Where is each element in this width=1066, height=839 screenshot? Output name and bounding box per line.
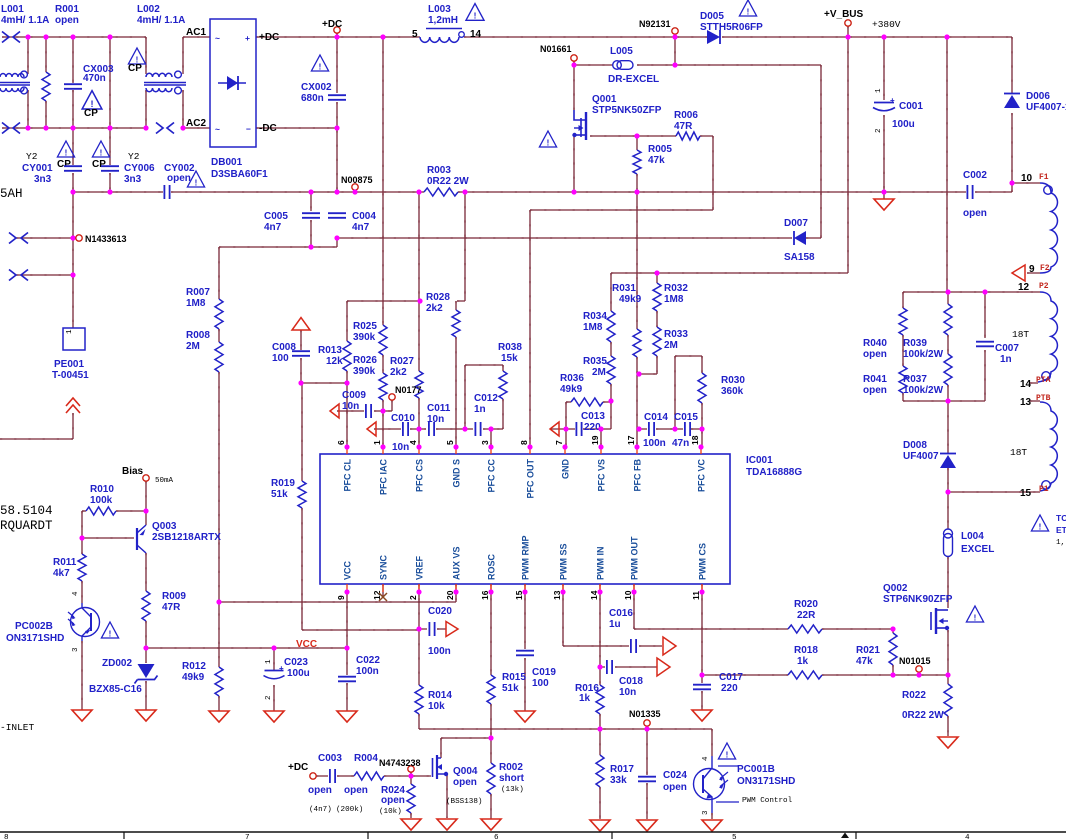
svg-text:Q001: Q001 xyxy=(592,94,617,105)
node +DC bottom xyxy=(310,773,316,779)
svg-text:3: 3 xyxy=(480,440,490,445)
warning triangle at CY002 xyxy=(187,171,204,187)
svg-text:R012: R012 xyxy=(182,661,206,672)
capacitor CX002 680n xyxy=(328,95,346,100)
ground at C023 xyxy=(264,711,284,722)
svg-text:D007: D007 xyxy=(784,218,808,229)
svg-text:PTA: PTA xyxy=(1036,376,1051,385)
off-page arrow above C008 xyxy=(292,318,310,331)
svg-text:51k: 51k xyxy=(502,683,519,694)
transformer winding F1-F2 (primary aux) xyxy=(1040,183,1058,273)
svg-text:R003: R003 xyxy=(427,165,451,176)
svg-text:12: 12 xyxy=(1018,282,1030,293)
svg-text:R010: R010 xyxy=(90,484,114,495)
svg-text:STP5NK50ZFP: STP5NK50ZFP xyxy=(592,105,662,116)
off-page arrows, mains input row L (top left) xyxy=(2,32,9,43)
svg-text:100n: 100n xyxy=(356,666,379,677)
svg-text:open: open xyxy=(963,208,987,219)
IC001 top pin 1 PFC IAC xyxy=(382,447,384,454)
svg-text:1: 1 xyxy=(875,88,883,93)
svg-text:!: ! xyxy=(474,11,477,21)
resistor R033 2M xyxy=(653,327,661,356)
capacitor C023 100u xyxy=(265,670,284,672)
svg-text:PFC OUT: PFC OUT xyxy=(526,458,536,498)
svg-text:+380V: +380V xyxy=(872,19,901,30)
svg-text:R014: R014 xyxy=(428,690,452,701)
svg-text:100u: 100u xyxy=(892,119,915,130)
svg-text:!: ! xyxy=(974,613,977,622)
warning triangle at D005 xyxy=(739,0,756,16)
capacitor C020 100n xyxy=(429,622,434,636)
node +V_BUS xyxy=(845,20,851,26)
capacitor C015 47n xyxy=(685,422,690,436)
svg-text:R021: R021 xyxy=(856,645,880,656)
off-page arrows, earth row 2 xyxy=(9,270,16,281)
capacitor C010 10n xyxy=(403,422,408,436)
svg-text:(200k): (200k) xyxy=(336,806,363,814)
svg-text:TDA16888G: TDA16888G xyxy=(746,467,802,478)
svg-text:100u: 100u xyxy=(287,668,310,679)
svg-text:3: 3 xyxy=(72,647,80,652)
off-page arrows at L002/AC2 break xyxy=(156,123,163,134)
svg-text:2k2: 2k2 xyxy=(426,303,443,314)
node N0177 xyxy=(389,394,395,400)
svg-text:R018: R018 xyxy=(794,645,818,656)
resistor R017 33k xyxy=(596,755,604,787)
svg-text:ON3171SHD: ON3171SHD xyxy=(6,633,64,644)
svg-text:47R: 47R xyxy=(162,602,181,613)
svg-text:22R: 22R xyxy=(797,610,816,621)
svg-text:open: open xyxy=(344,785,368,796)
svg-text:100n: 100n xyxy=(643,438,666,449)
node N00875 xyxy=(352,184,358,190)
svg-text:R030: R030 xyxy=(721,375,745,386)
resistor R013 12k xyxy=(343,341,351,371)
svg-text:PC001B: PC001B xyxy=(737,764,775,775)
svg-text:C010: C010 xyxy=(391,413,415,424)
svg-text:5: 5 xyxy=(732,834,737,839)
svg-text:C019: C019 xyxy=(532,667,556,678)
capacitor C005 4n7 xyxy=(302,213,320,218)
capacitor C024 (open) xyxy=(638,777,656,782)
common-mode choke L002 xyxy=(146,73,172,77)
svg-text:R027: R027 xyxy=(390,356,414,367)
resistor R041 (open) xyxy=(899,366,907,393)
svg-text:EXCEL: EXCEL xyxy=(961,544,994,555)
chassis chevron at PE001 xyxy=(66,398,80,413)
IC001 top pin 6 PFC CL xyxy=(346,447,348,454)
svg-text:DR-EXCEL: DR-EXCEL xyxy=(608,74,659,85)
optocoupler PC001B ON3171SHD (transistor side) xyxy=(694,769,725,800)
svg-text:L003: L003 xyxy=(428,4,451,15)
capacitor C014 100n xyxy=(649,422,654,436)
svg-text:PFC VS: PFC VS xyxy=(597,459,607,492)
svg-text:P2: P2 xyxy=(1039,282,1049,291)
svg-text:PFC FB: PFC FB xyxy=(633,459,643,492)
svg-text:58.5104: 58.5104 xyxy=(0,504,53,518)
svg-text:360k: 360k xyxy=(721,386,744,397)
svg-text:R019: R019 xyxy=(271,478,295,489)
resistor R019 51k xyxy=(298,481,306,508)
svg-text:TC: TC xyxy=(1056,513,1066,523)
svg-text:Bias: Bias xyxy=(122,466,144,477)
svg-text:14: 14 xyxy=(470,29,482,40)
svg-text:short: short xyxy=(499,773,525,784)
svg-text:5: 5 xyxy=(445,440,455,445)
svg-text:10: 10 xyxy=(1021,173,1033,184)
capacitor C003 (open) xyxy=(330,769,335,783)
svg-text:C008: C008 xyxy=(272,342,296,353)
svg-text:N4743238: N4743238 xyxy=(379,758,421,768)
svg-text:L002: L002 xyxy=(137,4,160,15)
svg-text:R033: R033 xyxy=(664,329,688,340)
svg-text:L001: L001 xyxy=(1,4,24,15)
svg-text:R034: R034 xyxy=(583,311,607,322)
svg-text:N00875: N00875 xyxy=(341,175,373,185)
IC001 bottom pin 12 SYNC xyxy=(382,584,384,592)
svg-text:R026: R026 xyxy=(353,355,377,366)
svg-text:R038: R038 xyxy=(498,342,522,353)
svg-text:C005: C005 xyxy=(264,211,288,222)
ground at Q004 source xyxy=(437,819,457,830)
svg-text:R031: R031 xyxy=(612,283,636,294)
svg-text:220: 220 xyxy=(721,683,738,694)
svg-text:49k9: 49k9 xyxy=(560,384,583,395)
capacitor C009 10n xyxy=(366,404,371,418)
svg-text:C016: C016 xyxy=(609,608,633,619)
svg-text:C003: C003 xyxy=(318,753,342,764)
IC001 top pin 7 GND xyxy=(564,447,566,454)
node N1433613 xyxy=(70,235,75,240)
svg-text:0R22 2W: 0R22 2W xyxy=(902,710,944,721)
off-page arrow at C018 xyxy=(657,658,670,676)
svg-text:C004: C004 xyxy=(352,211,376,222)
svg-text:4: 4 xyxy=(72,591,80,596)
svg-text:!: ! xyxy=(1039,522,1042,531)
svg-text:C022: C022 xyxy=(356,655,380,666)
inductor L005 DR-EXCEL xyxy=(613,61,622,70)
svg-text:Y2: Y2 xyxy=(26,151,38,162)
ground at C022 xyxy=(337,711,357,722)
svg-text:F2: F2 xyxy=(1040,264,1050,273)
svg-text:CP: CP xyxy=(128,63,142,74)
svg-text:PWM RMP: PWM RMP xyxy=(521,536,531,581)
warning triangle at L003 xyxy=(466,4,484,21)
junction at earth row 2 xyxy=(70,272,75,277)
off-page arrows, mains input row N xyxy=(2,123,9,134)
ground at R012 xyxy=(209,711,229,722)
node N01661 xyxy=(571,55,577,61)
IC001 top pin 17 PFC FB xyxy=(636,447,638,454)
ground at R002 xyxy=(481,819,501,830)
svg-text:49k9: 49k9 xyxy=(619,294,642,305)
transistor Q003 2SB1218ARTX (PNP) xyxy=(136,528,138,550)
svg-text:AC2: AC2 xyxy=(186,118,206,129)
resistor R022 0R22 2W xyxy=(944,684,952,716)
warning triangle at CX002 xyxy=(311,55,328,71)
svg-text:RQUARDT: RQUARDT xyxy=(0,519,53,533)
svg-text:4n7: 4n7 xyxy=(264,222,282,233)
svg-text:ON3171SHD: ON3171SHD xyxy=(737,776,795,787)
svg-text:R032: R032 xyxy=(664,283,688,294)
svg-text:47R: 47R xyxy=(674,121,693,132)
warning triangle CP at L002 xyxy=(128,48,145,64)
svg-text:2: 2 xyxy=(265,695,273,700)
resistor R016 1k xyxy=(596,685,604,714)
resistor R039 100k/2W xyxy=(944,304,952,335)
resistor R031 49k9 xyxy=(633,329,641,357)
svg-text:F1: F1 xyxy=(1039,173,1049,182)
svg-text:N01015: N01015 xyxy=(899,656,931,666)
capacitor C022 100n xyxy=(338,677,356,682)
svg-text:N92131: N92131 xyxy=(639,19,671,29)
svg-text:2: 2 xyxy=(408,595,418,600)
svg-text:8: 8 xyxy=(4,834,9,839)
svg-text:PWM Control: PWM Control xyxy=(742,797,793,805)
svg-text:17: 17 xyxy=(626,435,636,445)
IC001 bottom pin 16 ROSC xyxy=(490,584,492,592)
svg-text:Q004: Q004 xyxy=(453,766,478,777)
svg-text:2k2: 2k2 xyxy=(390,367,407,378)
resistor R024 (open 10k) xyxy=(407,784,415,813)
capacitor C016 1u xyxy=(631,639,636,653)
svg-text:49k9: 49k9 xyxy=(182,672,205,683)
svg-text:18T: 18T xyxy=(1012,329,1029,340)
svg-text:!: ! xyxy=(109,629,112,638)
svg-text:R028: R028 xyxy=(426,292,450,303)
capacitor C011 10n xyxy=(429,422,434,436)
svg-text:R009: R009 xyxy=(162,591,186,602)
svg-text:680n: 680n xyxy=(301,93,324,104)
svg-text:1n: 1n xyxy=(1000,354,1012,365)
svg-text:R004: R004 xyxy=(354,753,378,764)
svg-text:Q002: Q002 xyxy=(883,583,908,594)
svg-text:100k/2W: 100k/2W xyxy=(903,385,944,396)
ground at C001 xyxy=(874,199,894,210)
svg-text:4mH/ 1.1A: 4mH/ 1.1A xyxy=(137,15,185,26)
svg-text:13: 13 xyxy=(1020,397,1032,408)
resistor R004 (open) xyxy=(354,772,384,780)
IC001 top pin 8 PFC OUT xyxy=(529,447,531,454)
resistor R028 2k2 xyxy=(452,310,460,337)
svg-text:Q003: Q003 xyxy=(152,521,177,532)
off-page arrow at C016 xyxy=(663,637,676,655)
node N01015 xyxy=(916,666,922,672)
svg-text:DB001: DB001 xyxy=(211,157,243,168)
svg-text:R015: R015 xyxy=(502,672,526,683)
svg-text:L005: L005 xyxy=(610,46,633,57)
diode D007 SA158 xyxy=(794,231,806,245)
warning triangle CP at CY001 xyxy=(57,141,74,157)
revision marker triangle xyxy=(841,833,849,839)
capacitor C012 1n xyxy=(475,422,480,436)
svg-text:6: 6 xyxy=(336,440,346,445)
ground at PC001B emitter xyxy=(702,820,722,831)
svg-text:R011: R011 xyxy=(53,557,77,568)
junction dots (all solder points) xyxy=(25,34,30,39)
svg-text:R039: R039 xyxy=(903,338,927,349)
svg-text:~: ~ xyxy=(215,33,220,43)
resistor R008 2M xyxy=(215,342,223,372)
svg-text:4n7: 4n7 xyxy=(352,222,370,233)
svg-text:470n: 470n xyxy=(83,73,106,84)
svg-text:1k: 1k xyxy=(579,693,591,704)
svg-text:Y2: Y2 xyxy=(128,151,140,162)
svg-text:R005: R005 xyxy=(648,144,672,155)
capacitor C013 220 xyxy=(576,422,581,436)
svg-text:100n: 100n xyxy=(428,646,451,657)
svg-text:CP: CP xyxy=(57,159,71,170)
node N92131 xyxy=(672,28,678,34)
svg-text:VREF: VREF xyxy=(415,555,425,580)
IC001 top pin 3 PFC CC xyxy=(490,447,492,454)
capacitor CY006 3n3 xyxy=(101,166,119,171)
ground at R024 xyxy=(401,819,421,830)
svg-text:+: + xyxy=(245,33,250,43)
common-mode choke L001 xyxy=(0,74,24,77)
bridge rectifier DB001 D3SBA60F1 xyxy=(210,19,256,147)
svg-text:R017: R017 xyxy=(610,764,634,775)
resistor R007 1M8 xyxy=(215,299,223,329)
svg-text:R001: R001 xyxy=(55,4,79,15)
svg-text:0R22 2W: 0R22 2W xyxy=(427,176,469,187)
svg-text:~: ~ xyxy=(215,124,220,134)
svg-text:N1433613: N1433613 xyxy=(85,234,127,244)
svg-text:+: + xyxy=(890,96,895,105)
warning triangle at transformer note xyxy=(1031,515,1048,531)
svg-text:PFC CL: PFC CL xyxy=(343,459,353,492)
svg-text:N0177: N0177 xyxy=(395,385,422,395)
capacitor CY001 3n3 xyxy=(64,166,82,171)
svg-text:1k: 1k xyxy=(797,656,809,667)
svg-text:14: 14 xyxy=(1020,379,1032,390)
diode D006 UF4007-1 xyxy=(1004,93,1020,95)
svg-text:GND: GND xyxy=(561,459,571,480)
svg-text:C023: C023 xyxy=(284,657,308,668)
resistor R034 1M8 xyxy=(607,311,615,342)
sheet bottom border xyxy=(0,831,1066,833)
svg-text:R022: R022 xyxy=(902,690,926,701)
svg-text:4: 4 xyxy=(408,440,418,445)
svg-text:PTB: PTB xyxy=(1036,394,1051,403)
warning triangle CP at CY006 xyxy=(92,141,109,157)
IC001 top pin 4 PFC CS xyxy=(418,447,420,454)
svg-text:390k: 390k xyxy=(353,366,376,377)
capacitor C008 100 xyxy=(292,351,310,356)
svg-text:15k: 15k xyxy=(501,353,518,364)
svg-text:C009: C009 xyxy=(342,390,366,401)
svg-text:PFC VC: PFC VC xyxy=(697,459,707,493)
off-page arrow at C013 xyxy=(550,422,559,436)
MOSFET Q004 (open, BSS138) xyxy=(437,757,441,759)
svg-text:PFC CC: PFC CC xyxy=(487,459,497,493)
ground at C019 xyxy=(515,711,535,722)
svg-text:D006: D006 xyxy=(1026,91,1050,102)
resistor R036 49k9 xyxy=(571,398,603,406)
svg-text:+DC: +DC xyxy=(259,32,279,43)
IC001 bottom pin 14 PWM IN xyxy=(599,584,601,592)
no-connect X on pin 12 SYNC xyxy=(379,593,387,601)
resistor R010 100k xyxy=(86,507,116,515)
svg-text:IC001: IC001 xyxy=(746,455,773,466)
svg-text:5AH: 5AH xyxy=(0,187,23,201)
ground at R022 xyxy=(938,737,958,748)
svg-text:open: open xyxy=(863,349,887,360)
resistor R037 100k/2W xyxy=(944,354,952,385)
svg-text:!: ! xyxy=(100,148,103,157)
ground at C024 xyxy=(637,820,657,831)
svg-text:!: ! xyxy=(747,7,750,16)
svg-text:R040: R040 xyxy=(863,338,887,349)
svg-text:10n: 10n xyxy=(427,414,444,425)
transformer winding PTB-P1 18T xyxy=(1040,402,1057,491)
svg-text:VCC: VCC xyxy=(296,639,317,650)
svg-text:open: open xyxy=(308,785,332,796)
svg-text:47k: 47k xyxy=(648,155,665,166)
svg-text:3: 3 xyxy=(702,810,710,815)
svg-text:1,2mH: 1,2mH xyxy=(428,15,458,26)
svg-text:100: 100 xyxy=(272,353,289,364)
resistor R021 47k xyxy=(889,633,897,665)
resistor R027 2k2 xyxy=(415,371,423,398)
svg-text:PWM SS: PWM SS xyxy=(559,543,569,580)
protective earth terminal PE001 xyxy=(63,328,85,350)
capacitor C001 100u (bulk) xyxy=(874,102,894,104)
diode D008 UF4007 xyxy=(940,453,956,455)
zener diode ZD002 BZX85-C16 xyxy=(138,664,155,678)
svg-text:+V_BUS: +V_BUS xyxy=(824,9,864,20)
svg-text:PWM OUT: PWM OUT xyxy=(630,536,640,580)
svg-text:R025: R025 xyxy=(353,321,377,332)
svg-text:C015: C015 xyxy=(674,412,698,423)
warning triangle at PC002B xyxy=(101,622,118,638)
off-page arrows, earth row N1433613 xyxy=(9,233,16,244)
svg-text:47k: 47k xyxy=(856,656,873,667)
resistor R015 51k xyxy=(487,675,495,704)
IC001 top pin 5 GND S xyxy=(455,447,457,454)
resistor R026 390k xyxy=(379,373,387,400)
svg-text:AC1: AC1 xyxy=(186,27,206,38)
svg-text:10n: 10n xyxy=(392,442,409,453)
svg-text:2M: 2M xyxy=(186,341,200,352)
resistor R011 4k7 xyxy=(78,554,86,581)
svg-text:C017: C017 xyxy=(719,672,743,683)
svg-text:15: 15 xyxy=(1020,488,1032,499)
svg-text:C007: C007 xyxy=(995,343,1019,354)
svg-text:3n3: 3n3 xyxy=(34,174,52,185)
svg-text:51k: 51k xyxy=(271,489,288,500)
svg-text:R006: R006 xyxy=(674,110,698,121)
svg-text:ET: ET xyxy=(1056,525,1066,535)
svg-text:R037: R037 xyxy=(903,374,927,385)
IC001 bottom pin 10 PWM OUT xyxy=(633,584,635,592)
svg-text:2: 2 xyxy=(875,128,883,133)
svg-text:(4n7): (4n7) xyxy=(309,806,332,814)
IC001 bottom pin 13 PWM SS xyxy=(562,584,564,592)
svg-text:R036: R036 xyxy=(560,373,584,384)
svg-text:C018: C018 xyxy=(619,676,643,687)
IC U IC001 TDA16888G body xyxy=(320,454,730,584)
svg-text:−: − xyxy=(246,124,251,134)
svg-text:N01661: N01661 xyxy=(540,44,572,54)
svg-text:+DC: +DC xyxy=(322,19,342,30)
svg-text:PFC IAC: PFC IAC xyxy=(379,458,389,495)
svg-text:C020: C020 xyxy=(428,606,452,617)
svg-text:!: ! xyxy=(195,178,198,187)
pin 9 / F2 with off-page arrow xyxy=(1012,265,1025,281)
resistor R009 47R xyxy=(142,591,150,621)
resistor R040 (open) xyxy=(899,308,907,335)
